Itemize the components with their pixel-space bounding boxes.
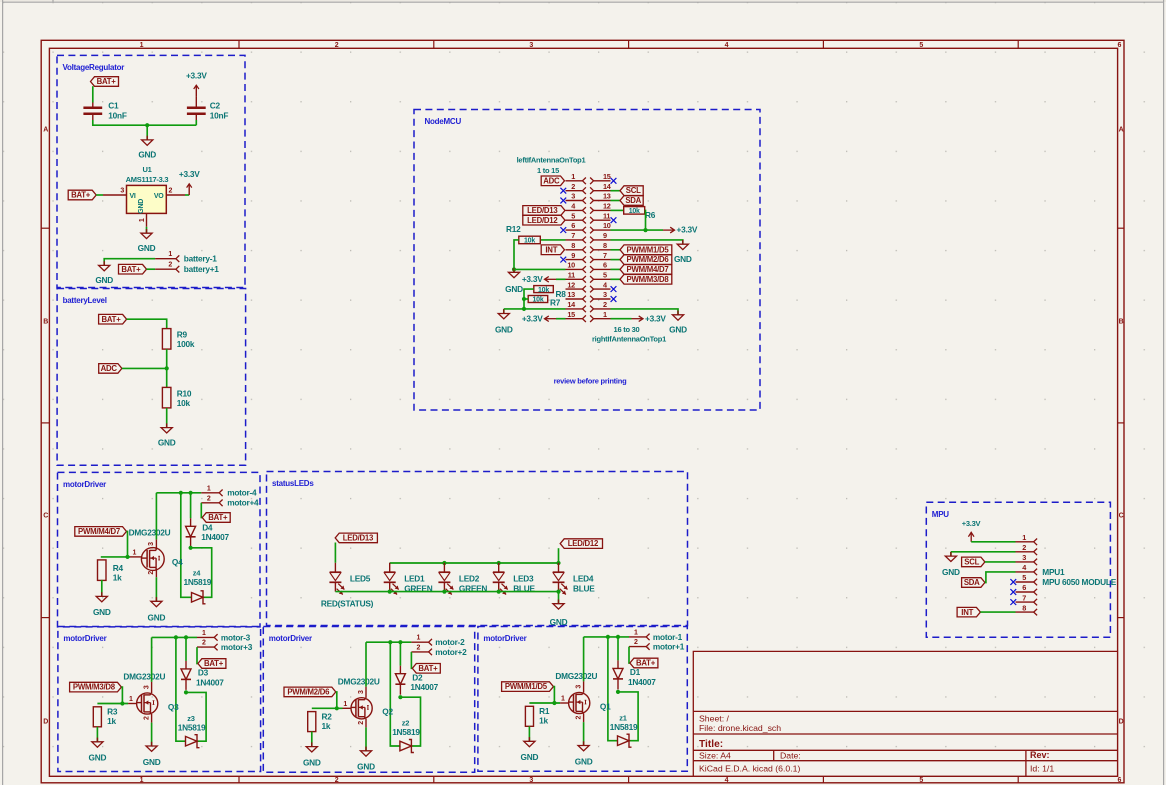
svg-text:D2: D2 — [412, 673, 423, 683]
svg-text:13: 13 — [603, 192, 611, 201]
svg-text:1: 1 — [561, 696, 565, 703]
svg-text:LED1: LED1 — [404, 574, 425, 584]
svg-text:GND: GND — [148, 612, 166, 622]
svg-text:16 to 30: 16 to 30 — [614, 325, 640, 334]
svg-text:2: 2 — [207, 495, 211, 502]
svg-text:12: 12 — [567, 280, 575, 289]
svg-text:3: 3 — [143, 685, 150, 689]
svg-text:D: D — [1119, 719, 1124, 726]
svg-text:+3.3V: +3.3V — [522, 274, 543, 284]
svg-text:motor-3: motor-3 — [221, 632, 251, 642]
svg-text:2: 2 — [416, 644, 420, 651]
svg-text:8: 8 — [571, 241, 575, 250]
svg-text:+3.3V: +3.3V — [645, 313, 666, 323]
svg-text:GND: GND — [669, 325, 687, 335]
svg-text:6: 6 — [571, 221, 575, 230]
svg-text:2: 2 — [1022, 543, 1026, 552]
svg-text:motor+2: motor+2 — [435, 647, 467, 657]
svg-text:File: drone.kicad_sch: File: drone.kicad_sch — [699, 723, 781, 733]
svg-text:10nF: 10nF — [108, 110, 127, 120]
svg-text:MPU 6050 MODULE: MPU 6050 MODULE — [1042, 577, 1116, 587]
svg-text:3: 3 — [120, 187, 124, 194]
svg-text:2: 2 — [148, 571, 155, 575]
svg-text:10k: 10k — [533, 297, 544, 304]
svg-text:7: 7 — [1022, 593, 1026, 602]
svg-text:5: 5 — [919, 777, 923, 784]
svg-text:7: 7 — [571, 231, 575, 240]
svg-text:R4: R4 — [113, 563, 124, 573]
svg-text:1 to 15: 1 to 15 — [537, 166, 559, 175]
svg-text:VoltageRegulator: VoltageRegulator — [63, 63, 125, 72]
svg-text:R2: R2 — [322, 712, 333, 722]
svg-text:10k: 10k — [177, 398, 191, 408]
svg-text:PWM/M3/D8: PWM/M3/D8 — [627, 275, 670, 284]
svg-text:battery+1: battery+1 — [184, 264, 220, 274]
svg-text:1: 1 — [343, 701, 347, 708]
svg-text:GND: GND — [95, 275, 113, 285]
svg-text:1: 1 — [202, 630, 206, 637]
svg-text:Q3: Q3 — [168, 702, 179, 712]
svg-text:1N5819: 1N5819 — [392, 727, 420, 737]
svg-text:motor-1: motor-1 — [653, 632, 683, 642]
svg-text:+3.3V: +3.3V — [677, 225, 698, 235]
svg-text:3: 3 — [603, 290, 607, 299]
svg-text:GND: GND — [89, 753, 107, 763]
svg-text:Q4: Q4 — [172, 557, 183, 567]
svg-text:GND: GND — [158, 437, 176, 447]
svg-text:1N4007: 1N4007 — [410, 682, 438, 692]
svg-text:PWM/M1/D5: PWM/M1/D5 — [505, 682, 548, 691]
svg-text:15: 15 — [567, 310, 575, 319]
svg-text:B: B — [43, 319, 48, 326]
svg-text:1: 1 — [634, 629, 638, 636]
svg-text:C: C — [1119, 513, 1124, 520]
svg-text:PWM/M4/D7: PWM/M4/D7 — [78, 527, 120, 536]
svg-text:GND: GND — [674, 254, 692, 264]
svg-text:Id: 1/1: Id: 1/1 — [1030, 764, 1054, 774]
svg-text:BAT+: BAT+ — [71, 191, 91, 200]
svg-text:1k: 1k — [113, 573, 122, 583]
svg-text:BAT+: BAT+ — [97, 77, 117, 86]
svg-text:1: 1 — [207, 485, 211, 492]
svg-text:motorDriver: motorDriver — [63, 480, 106, 489]
svg-text:8: 8 — [603, 241, 607, 250]
svg-text:5: 5 — [1022, 573, 1026, 582]
svg-text:battery-1: battery-1 — [184, 253, 217, 263]
svg-text:2: 2 — [169, 187, 173, 194]
svg-text:INT: INT — [961, 608, 973, 617]
svg-text:2: 2 — [168, 262, 172, 269]
svg-text:LED4: LED4 — [573, 574, 594, 584]
svg-text:motor+3: motor+3 — [221, 642, 253, 652]
svg-text:GND: GND — [138, 150, 156, 160]
svg-text:DMG2302U: DMG2302U — [338, 677, 380, 687]
svg-text:review before printing: review before printing — [554, 377, 628, 386]
svg-text:SDA: SDA — [964, 578, 980, 587]
svg-text:PWM/M3/D8: PWM/M3/D8 — [73, 683, 116, 692]
svg-text:1k: 1k — [107, 716, 116, 726]
svg-text:R7: R7 — [550, 298, 561, 308]
svg-text:6: 6 — [1117, 42, 1121, 49]
svg-text:12: 12 — [603, 202, 611, 211]
svg-text:R6: R6 — [645, 210, 656, 220]
svg-text:2: 2 — [335, 777, 339, 784]
svg-text:1N5819: 1N5819 — [184, 577, 212, 587]
svg-text:GND: GND — [138, 199, 145, 214]
svg-text:1: 1 — [140, 777, 144, 784]
svg-text:11: 11 — [603, 211, 610, 220]
svg-text:1: 1 — [603, 310, 607, 319]
svg-text:PWM/M4/D7: PWM/M4/D7 — [627, 265, 669, 274]
svg-text:+3.3V: +3.3V — [522, 313, 543, 323]
svg-text:GND: GND — [575, 756, 593, 766]
svg-text:Date:: Date: — [780, 750, 801, 760]
svg-text:+3.3V: +3.3V — [179, 169, 200, 179]
svg-text:2: 2 — [575, 715, 582, 719]
svg-text:3: 3 — [529, 42, 533, 49]
svg-text:C: C — [43, 513, 48, 520]
svg-text:VI: VI — [130, 193, 136, 200]
svg-text:D3: D3 — [198, 668, 209, 678]
svg-text:GND: GND — [495, 325, 513, 335]
svg-text:BAT+: BAT+ — [208, 513, 228, 522]
svg-text:1: 1 — [416, 635, 420, 642]
svg-text:ADC: ADC — [543, 176, 560, 185]
svg-text:5: 5 — [919, 42, 923, 49]
svg-text:+3.3V: +3.3V — [962, 519, 981, 528]
svg-text:A: A — [43, 127, 48, 134]
svg-text:9: 9 — [603, 231, 607, 240]
svg-text:BAT+: BAT+ — [102, 315, 122, 324]
svg-text:Sheet: /: Sheet: / — [699, 714, 730, 724]
svg-text:AMS1117-3.3: AMS1117-3.3 — [126, 175, 169, 184]
svg-text:1: 1 — [571, 172, 575, 181]
svg-text:10nF: 10nF — [210, 110, 229, 120]
svg-text:5: 5 — [603, 271, 607, 280]
svg-text:R3: R3 — [107, 707, 118, 717]
svg-text:R10: R10 — [177, 388, 192, 398]
svg-text:3: 3 — [148, 542, 155, 546]
svg-text:2: 2 — [143, 716, 150, 720]
svg-text:R9: R9 — [177, 330, 188, 340]
svg-text:GND: GND — [505, 284, 523, 294]
svg-text:2: 2 — [202, 640, 206, 647]
svg-text:R12: R12 — [506, 224, 521, 234]
svg-text:10k: 10k — [629, 208, 640, 215]
svg-text:U1: U1 — [142, 165, 151, 174]
svg-text:Rev:: Rev: — [1030, 750, 1050, 760]
svg-text:7: 7 — [603, 251, 607, 260]
svg-text:DMG2302U: DMG2302U — [555, 671, 597, 681]
svg-text:INT: INT — [545, 245, 557, 254]
svg-text:D1: D1 — [630, 667, 641, 677]
svg-text:2: 2 — [335, 42, 339, 49]
svg-text:6: 6 — [1117, 777, 1121, 784]
svg-text:C2: C2 — [210, 101, 221, 111]
svg-text:PWM/M2/D6: PWM/M2/D6 — [287, 688, 330, 697]
svg-text:motorDriver: motorDriver — [63, 634, 106, 643]
svg-text:LED2: LED2 — [459, 574, 480, 584]
svg-text:LED/D13: LED/D13 — [527, 206, 558, 215]
svg-text:VO: VO — [154, 193, 164, 200]
svg-text:motorDriver: motorDriver — [269, 634, 312, 643]
svg-text:6: 6 — [603, 261, 607, 270]
svg-text:motor+4: motor+4 — [227, 498, 259, 508]
svg-text:15: 15 — [603, 172, 611, 181]
svg-text:1N5819: 1N5819 — [178, 722, 206, 732]
svg-text:1: 1 — [139, 218, 146, 222]
svg-text:3: 3 — [529, 777, 533, 784]
svg-text:5: 5 — [571, 211, 575, 220]
svg-text:motor-2: motor-2 — [435, 637, 465, 647]
svg-text:1N4007: 1N4007 — [201, 532, 229, 542]
svg-text:4: 4 — [725, 42, 729, 49]
svg-text:2: 2 — [634, 639, 638, 646]
svg-text:3: 3 — [358, 690, 365, 694]
svg-text:1: 1 — [168, 251, 172, 258]
svg-text:A: A — [1119, 127, 1124, 134]
svg-text:1N4007: 1N4007 — [196, 677, 224, 687]
svg-text:1: 1 — [133, 549, 137, 556]
svg-text:GND: GND — [303, 757, 321, 767]
svg-text:LED/D12: LED/D12 — [568, 539, 599, 548]
svg-text:NodeMCU: NodeMCU — [425, 117, 462, 126]
svg-text:SCL: SCL — [626, 186, 641, 195]
svg-text:MPU1: MPU1 — [1042, 567, 1065, 577]
svg-text:10: 10 — [567, 261, 575, 270]
svg-text:+3.3V: +3.3V — [186, 71, 207, 81]
svg-text:PWM/M2/D6: PWM/M2/D6 — [627, 255, 670, 264]
svg-text:6: 6 — [1022, 583, 1026, 592]
svg-text:9: 9 — [571, 251, 575, 260]
svg-text:1k: 1k — [539, 716, 548, 726]
svg-text:GND: GND — [550, 617, 568, 627]
svg-text:1: 1 — [140, 42, 144, 49]
svg-text:1N4007: 1N4007 — [628, 677, 656, 687]
svg-text:2: 2 — [358, 721, 365, 725]
svg-text:statusLEDs: statusLEDs — [272, 479, 314, 488]
svg-text:1N5819: 1N5819 — [610, 722, 638, 732]
svg-text:motor-4: motor-4 — [227, 488, 257, 498]
svg-text:KiCad E.D.A. kicad (6.0.1): KiCad E.D.A. kicad (6.0.1) — [699, 764, 801, 774]
svg-text:RED(STATUS): RED(STATUS) — [321, 599, 374, 609]
svg-text:BLUE: BLUE — [573, 583, 595, 593]
svg-text:GND: GND — [143, 757, 161, 767]
svg-text:Q1: Q1 — [600, 701, 611, 711]
svg-text:GND: GND — [138, 243, 156, 253]
svg-text:SCL: SCL — [964, 558, 979, 567]
svg-text:11: 11 — [568, 271, 575, 280]
svg-text:GND: GND — [521, 752, 539, 762]
svg-text:100k: 100k — [177, 339, 195, 349]
svg-text:LED3: LED3 — [513, 574, 534, 584]
svg-text:10k: 10k — [538, 287, 549, 294]
svg-text:LED5: LED5 — [350, 574, 371, 584]
svg-text:Q2: Q2 — [382, 707, 393, 717]
svg-text:rightIfAntennaOnTop1: rightIfAntennaOnTop1 — [592, 335, 666, 344]
svg-text:2: 2 — [571, 182, 575, 191]
svg-text:Title:: Title: — [699, 739, 723, 750]
svg-text:BAT+: BAT+ — [121, 265, 141, 274]
svg-text:GND: GND — [93, 607, 111, 617]
svg-text:motorDriver: motorDriver — [483, 634, 526, 643]
svg-text:PWM/M1/D5: PWM/M1/D5 — [627, 245, 670, 254]
svg-text:leftIfAntennaOnTop1: leftIfAntennaOnTop1 — [517, 156, 586, 165]
svg-text:DMG2302U: DMG2302U — [123, 672, 165, 682]
svg-text:3: 3 — [1022, 553, 1026, 562]
svg-text:1: 1 — [129, 696, 133, 703]
svg-text:10: 10 — [603, 221, 611, 230]
svg-text:R1: R1 — [539, 706, 550, 716]
svg-text:MPU: MPU — [932, 510, 950, 519]
svg-text:4: 4 — [725, 777, 729, 784]
svg-text:LED/D12: LED/D12 — [527, 216, 558, 225]
svg-text:8: 8 — [1022, 603, 1026, 612]
svg-text:D4: D4 — [202, 523, 213, 533]
svg-text:1k: 1k — [322, 721, 331, 731]
svg-text:Size: A4: Size: A4 — [699, 750, 731, 760]
svg-text:13: 13 — [567, 290, 575, 299]
svg-text:C1: C1 — [108, 101, 119, 111]
svg-text:GND: GND — [357, 762, 375, 772]
svg-text:3: 3 — [575, 685, 582, 689]
svg-text:14: 14 — [567, 300, 576, 309]
svg-text:SDA: SDA — [625, 196, 641, 205]
svg-text:DMG2302U: DMG2302U — [129, 528, 171, 538]
svg-text:LED/D13: LED/D13 — [343, 534, 374, 543]
svg-text:GND: GND — [942, 567, 960, 577]
svg-text:3: 3 — [571, 192, 575, 201]
svg-text:motor+1: motor+1 — [653, 642, 685, 652]
svg-text:D: D — [43, 719, 48, 726]
svg-text:2: 2 — [603, 300, 607, 309]
svg-text:batteryLevel: batteryLevel — [63, 296, 107, 305]
svg-text:ADC: ADC — [101, 364, 118, 373]
svg-text:B: B — [1119, 319, 1124, 326]
svg-text:1: 1 — [1022, 533, 1026, 542]
svg-text:10k: 10k — [524, 238, 535, 245]
